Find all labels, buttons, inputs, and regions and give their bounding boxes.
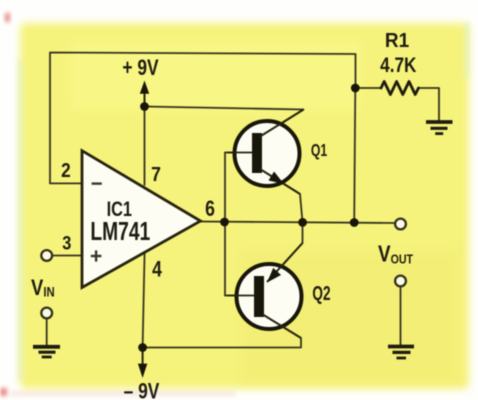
svg-text:LM741: LM741 [90,216,150,246]
terminal Vin upper [41,250,52,261]
transistor Q2 [227,243,303,338]
subtle scan shading [240,250,460,385]
wire Q2 collector to -9V rail [143,314,301,348]
wire output column x355 [354,88,355,223]
wire Vin lower stem to ground [46,320,48,345]
wire R1 left lead [355,87,381,89]
svg-text:4: 4 [152,258,162,282]
minus sign pin2 [92,182,102,184]
terminal Vin lower [41,308,52,319]
svg-text:7: 7 [151,164,161,187]
emitter lead into base [267,243,303,282]
+9V arrow [140,81,149,107]
svg-text:R1: R1 [385,30,409,53]
wire +9V rail to Q1 collector [145,107,304,137]
terminal Vout lower [395,276,406,287]
wire pin4 to -9V node [143,252,145,348]
svg-text:6: 6 [205,197,215,221]
wire R1 right lead and drop to ground [419,88,440,120]
wire Q2 emitter from output node [266,223,303,284]
wire Q2 base lead [225,295,255,297]
wire pin7 to +9V node [144,107,146,186]
junction node +9V [140,102,149,111]
wire base riser pin6 node [224,153,226,296]
collector lead from base [262,314,301,338]
pink strip bottom [10,391,235,396]
wire pin3 from Vin terminal [53,255,83,257]
junction node emitters [298,218,307,227]
svg-text:4.7K: 4.7K [380,55,416,78]
ground (Vout) [388,347,414,359]
wire Q1 emitter to output node [260,169,303,222]
-9V arrow [138,348,147,379]
svg-text:+ 9V: + 9V [122,56,159,80]
red scan mark bottom-left [0,388,7,396]
wire pin2 horizontal [50,182,82,184]
green tint right edge [464,22,470,77]
op-amp U1 triangle [82,151,201,288]
green tint left edge [17,60,24,380]
junction node -9V [138,343,147,352]
wire output rail pin6 to Vout [200,222,394,224]
junction node output column [350,218,359,227]
svg-text:Q1: Q1 [311,141,328,161]
svg-text:3: 3 [62,232,71,253]
junction node R1/feedback [351,84,360,93]
wire Q1 base lead [225,152,253,154]
terminal Vout upper [395,219,406,230]
transistor Q1 [227,110,304,195]
svg-text:2: 2 [61,159,71,182]
junction node pin6 [220,218,229,227]
emitter arrowhead (points into base) [263,268,281,286]
plus sign pin3 [91,250,102,261]
ground (Vin) [33,347,60,357]
emitter arrowhead [268,172,286,189]
resistor R1 zigzag [381,82,419,95]
red scan mark top-left [5,13,10,22]
svg-text:Q2: Q2 [312,282,330,304]
wire Vout lower stem to ground [400,288,402,345]
ground (R1) [426,122,453,134]
wire feedback loop: output column to pin2 [50,53,356,184]
svg-text:– 9V: – 9V [124,380,160,400]
